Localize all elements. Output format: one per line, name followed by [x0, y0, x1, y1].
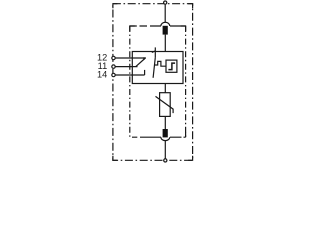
wire: signalling box to varistor	[164, 84, 166, 93]
inner boundary corner stubs	[130, 26, 186, 137]
step function symbol	[168, 63, 175, 70]
actuator flag tick	[152, 51, 156, 53]
terminal 12 circle	[112, 56, 115, 59]
bottom terminal circle	[164, 159, 167, 162]
inner protection-module boundary right edge (dash-dot)	[185, 26, 187, 137]
thermal disconnector (bottom): contact arc	[161, 137, 170, 140]
outer boundary corner stubs	[113, 4, 193, 161]
actuator slanted blade	[153, 57, 155, 77]
contact wedge apex fill	[143, 57, 146, 60]
wire: top terminal to disconnector	[164, 5, 166, 23]
wire: bottom disconnector to bottom terminal	[164, 141, 166, 159]
svg-text:14: 14	[97, 69, 107, 79]
wire: terminal 11 to common contact	[115, 66, 137, 68]
terminal 14 circle	[112, 73, 115, 76]
signal output box	[166, 60, 177, 72]
actuator link vertical stem	[154, 47, 156, 57]
terminal 11 circle	[112, 65, 115, 68]
top terminal circle	[164, 1, 167, 4]
signal waveform link wire	[154, 61, 166, 66]
wire: terminal 12 to NC contact	[115, 57, 145, 59]
changeover contact blade (11 to 12, closed)	[136, 58, 146, 67]
outer device boundary (dash-dot rectangle)	[113, 4, 193, 161]
thermal disconnector (bottom): fuse body	[163, 129, 168, 137]
wire: terminal 14 to NO contact	[115, 74, 144, 76]
NO contact seat tick (14)	[144, 70, 146, 75]
varistor body	[160, 93, 171, 117]
wire: varistor to bottom disconnector	[164, 116, 166, 129]
remote signalling contact box	[132, 52, 183, 84]
thermal disconnector (top): fuse body	[163, 26, 168, 35]
varistor diagonal stroke	[156, 96, 174, 113]
inner boundary top edge segments	[130, 25, 186, 27]
thermal disconnector (top): contact arc	[161, 22, 170, 26]
wire: disconnector to signalling box	[164, 35, 166, 52]
inner protection-module boundary left edge (dash-dot)	[129, 26, 131, 137]
inner boundary bottom edge segments	[132, 136, 186, 138]
